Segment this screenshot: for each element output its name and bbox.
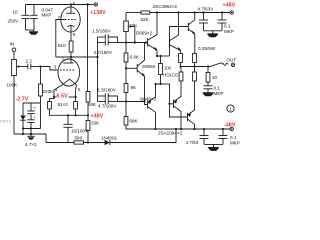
svg-text:1.5/160V: 1.5/160V [98,88,117,93]
tube V1a 6N11 upper triode [61,5,80,42]
ground -48V caps [204,144,223,151]
label 6.5V heater [53,96,55,98]
transistor Q lower output A 2SA1094 [170,81,182,129]
capacitor pair 1.5/160V + 4.7/160V upper coupling [92,28,118,55]
svg-text:100: 100 [164,65,172,70]
output fuse link and OUT terminal [208,58,236,67]
resistor 51x2 heater droppers [48,97,78,115]
node +48V [87,114,89,116]
resistor 0.25/5W emitter upper A [179,54,183,67]
resistor 8K [124,68,137,101]
wire lower output base line [170,84,188,117]
resistor 68K dropper [86,92,97,116]
svg-text:4.7/160V: 4.7/160V [94,50,113,55]
resistor 100 HOLCO bias coupling [159,56,179,84]
resistor 220K grid leak [39,67,55,104]
node dot caps join [96,56,98,58]
junction -48V rail nodes [175,128,177,130]
junction B649 collector rail [154,128,156,130]
resistor 510 cathode V1a [58,41,73,57]
wire bus to -48V rail [110,129,176,143]
node dot tube anode on rail [70,3,72,5]
svg-text:68K: 68K [129,119,138,124]
node S8050 base [125,67,127,69]
svg-text:0.1: 0.1 [214,86,221,91]
svg-text:68K: 68K [88,102,97,107]
wire lower driver emitter node [156,83,170,85]
resistor 0.25/5W emitter lower A [179,67,183,82]
tube V1b 6N11 lower triode [54,57,80,97]
potentiometer 100K volume [7,60,24,135]
capacitor 4.7/63 on -48V rail [186,128,209,145]
svg-text:250V: 250V [8,19,20,24]
diode 1N4001 in bus [101,135,118,145]
svg-text:62K: 62K [141,17,150,22]
svg-text:S8050: S8050 [142,64,156,69]
svg-text:D669×2: D669×2 [136,30,153,35]
svg-text:-48V: -48V [224,122,236,128]
wire bus continues [84,142,105,144]
svg-text:0.1: 0.1 [230,135,237,140]
terminal IN [10,42,16,60]
wire upper driver emitter node [157,55,170,57]
resistor 62K [141,11,150,22]
svg-text:6.5V: 6.5V [57,94,68,100]
wire heater supply node [68,114,88,116]
svg-text:100K: 100K [7,83,19,88]
circled 1 [227,105,234,112]
svg-text:1: 1 [229,107,232,112]
svg-text:560: 560 [75,136,83,141]
ground +48V caps [204,31,223,38]
svg-text:8K: 8K [131,85,138,90]
wire lower base node y101.5 [118,101,145,103]
resistor 0.25/5W emitter lower B [193,67,197,82]
junction D669 emitter node [156,55,158,57]
svg-text:-2.7V: -2.7V [16,97,29,103]
svg-text:10: 10 [212,75,218,80]
wire bottom bus rail [14,134,74,143]
junction 100ohm top [159,55,161,57]
svg-text:4.7/63: 4.7/63 [186,140,199,145]
svg-text:510: 510 [58,43,66,48]
resistor 33K [86,115,100,142]
wire coupling node vertical x97.5 [97,37,99,96]
capacitor 4.7x2 series electrolytics [25,103,37,147]
svg-text:33K: 33K [91,121,100,126]
transistor Q upper output A 2SC3964 [170,13,181,54]
svg-text:MKP: MKP [224,29,234,34]
svg-text:B649×2: B649×2 [140,97,156,102]
resistor 6.8K [124,43,140,69]
resistor 560 in bus [74,136,84,144]
bias network box top wire [23,102,41,104]
capacitor C1 10/250V electrolytic [8,5,30,31]
svg-text:10: 10 [13,10,19,15]
capacitor 0.1 MKP on -48V rail [219,128,240,146]
wire S8050 base [126,67,137,69]
svg-text:51×2: 51×2 [58,102,69,107]
wire upper output base line [170,27,189,57]
transistor Q upper output B 2SC3964 [188,13,195,54]
svg-text:6.8K: 6.8K [130,55,140,60]
node dots upper base wire [125,41,127,43]
transistor Q lower output B 2SA1094 [188,81,195,129]
wire +138V feed down x87.5 [87,5,89,92]
wire output rail [181,66,209,68]
svg-text:+138V: +138V [90,10,106,16]
svg-text:OUT: OUT [227,58,237,63]
junction output rail nodes [179,65,181,67]
resistor 68K lower bias [124,102,176,130]
junction heater supply nodes [74,114,76,116]
svg-text:+48V: +48V [91,113,104,119]
transistor B649 lower driver [140,84,156,129]
bias network box bottom wire [23,128,41,130]
wire +138V top rail [26,4,88,6]
capacitor 0.1 MKP on +48V rail [218,11,234,34]
svg-text:4.7×2: 4.7×2 [25,142,37,147]
junction B649 emitter node [154,83,156,85]
wire cap bottoms [26,29,35,31]
junction 100ohm bottom [159,83,161,85]
capacitor C2 0.047 MKP [30,5,53,31]
svg-text:10K: 10K [129,23,138,28]
wire to grid V1b [41,67,58,71]
potentiometer 10K bias [124,13,138,43]
transistor S8050 bias servo [137,43,156,102]
wire grid V1a to left and down [56,20,65,58]
capacitor 10/160V heater bypass [64,115,90,142]
svg-text:0.1: 0.1 [224,23,231,28]
junction 33K bottom bus [87,141,89,143]
svg-text:IN: IN [10,42,15,47]
svg-text:220K: 220K [43,89,55,94]
terminal -48V [224,122,236,130]
rail +48V bias feed y12.5 [126,12,141,14]
svg-text:2SA1094×2: 2SA1094×2 [158,131,183,136]
svg-text:2SC3964×2: 2SC3964×2 [153,4,178,9]
svg-text:1.5/160V: 1.5/160V [92,28,111,33]
svg-text:2.2: 2.2 [26,58,33,63]
junction output A collector rail [177,11,179,13]
svg-text:HOLCO: HOLCO [163,72,179,77]
svg-text:1N4001: 1N4001 [101,135,118,140]
terminal +138V [88,3,107,16]
capacitor 0.1 MKP zobel [204,86,224,97]
svg-text:MKP: MKP [214,91,224,96]
junction +138V corner [86,3,88,5]
node dots lower base wire [125,100,127,102]
capacitor 4.7/63V on +48V rail [198,6,215,31]
svg-text:10/160V: 10/160V [71,129,89,134]
svg-text:MKP: MKP [42,13,52,18]
junction output B collector rail [193,11,195,13]
svg-text:+48V: +48V [223,3,236,9]
diode bias left branch [20,103,26,129]
svg-text:KR2.2: KR2.2 [0,118,11,123]
svg-text:4.7/160V: 4.7/160V [98,103,117,108]
resistor 0.25/5W emitter upper B [193,46,216,67]
wire upper base node y42.5 [118,42,148,44]
wire SRPP output node y57 [56,56,98,58]
rail -48V [126,128,231,130]
junction lower base stub [168,103,170,105]
svg-text:4.7/63V: 4.7/63V [198,6,215,11]
capacitor 2.2 coupling [23,58,41,69]
terminal +48V [223,3,236,15]
transistor D669 upper driver [148,13,158,57]
svg-text:MKP: MKP [230,141,240,146]
ground zobel [203,92,214,96]
ground filter caps [29,30,38,35]
junction D669 collector rail [156,11,158,13]
capacitor pair 1.5/160V + 4.7/160V lower coupling [98,88,118,109]
resistor 10 zobel [206,67,217,86]
node dot grid junction [39,65,41,67]
svg-text:0.25/5W: 0.25/5W [198,46,216,51]
node dot 510 bottom [70,56,72,58]
